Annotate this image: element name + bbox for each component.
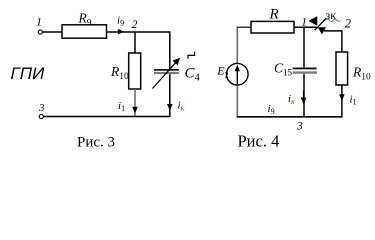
variable capacitor arrow [153,62,177,89]
switch closed (key) arrow left [308,16,317,26]
capacitor C4 bottom plate [154,72,179,74]
capacitor C4 top plate [154,69,179,71]
switch diagonal [315,18,327,30]
grammar squiggle [326,19,341,21]
voltage source E2 [227,63,249,85]
svg-text:R10: R10 [110,64,129,82]
resistor R10 [129,53,141,89]
adjustment step mark [188,52,195,59]
wire [43,31,62,33]
resistor R [251,21,294,33]
svg-text:Рис. 3: Рис. 3 [77,135,115,151]
svg-text:iк: iк [178,100,185,113]
svg-text:2: 2 [132,17,138,31]
resistor R10 (fig4) [336,52,348,85]
wire [134,89,136,117]
svg-text:C4: C4 [185,66,201,84]
capacitor C15 bottom plate [293,71,317,73]
svg-text:1: 1 [36,15,42,29]
wire [44,116,171,118]
terminal 1 [38,30,42,34]
svg-text:1: 1 [301,17,307,29]
svg-text:i9: i9 [268,103,275,116]
svg-text:R9: R9 [78,11,92,29]
current arrow i1 [132,107,138,114]
svg-text:E2: E2 [216,64,228,80]
switch arrow down [318,27,326,34]
svg-text:зк: зк [326,8,337,22]
wire [169,31,171,69]
svg-text:i9: i9 [117,15,124,28]
svg-text:iк: iк [288,93,295,106]
capacitor C15 top plate [293,67,317,69]
wire [134,32,136,53]
svg-text:ГПИ: ГПИ [11,64,46,83]
wire [237,116,343,118]
svg-text:C15: C15 [274,61,293,78]
svg-text:i1: i1 [350,94,357,107]
svg-text:R: R [269,7,279,23]
svg-text:3: 3 [296,121,303,133]
current arrow ik (C15) [301,98,307,105]
svg-text:2: 2 [345,17,351,31]
wire [324,31,342,52]
current arrow i1 (fig4) [339,94,345,101]
current arrow i9 [118,29,125,35]
resistor R9 [62,25,107,38]
wire [236,27,238,117]
terminal 3 [39,114,43,118]
wire [303,27,305,67]
svg-text:i1: i1 [118,100,125,113]
svg-text:3: 3 [38,102,45,114]
current arrow ic [167,104,173,111]
wire [341,85,343,117]
wire [303,74,305,117]
wire [237,26,251,29]
wire [294,26,317,28]
svg-text:Рис. 4: Рис. 4 [238,132,280,151]
wire [169,74,171,116]
svg-text:R10: R10 [352,65,371,83]
wire [107,31,170,33]
